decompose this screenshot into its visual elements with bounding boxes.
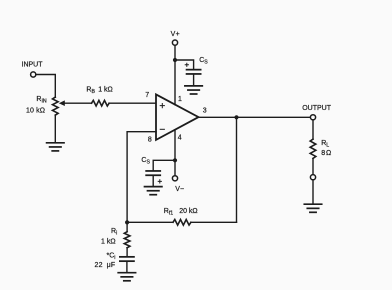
potentiometer wiper arrow — [59, 100, 65, 106]
plus sign upper CS — [185, 63, 188, 66]
wire wiper to RB — [64, 102, 92, 104]
svg-text:10 kΩ: 10 kΩ — [26, 107, 45, 114]
ground below RIN — [47, 143, 64, 151]
op-amp minus sign — [160, 128, 164, 130]
op-amp U1 triangle — [156, 94, 199, 139]
junction output feedback — [234, 115, 238, 119]
wire pot bottom to ground — [54, 115, 56, 142]
capacitor Ci 22 uF — [119, 256, 135, 262]
plus sign lower CS — [158, 180, 161, 183]
potentiometer RIN 10 kOhm — [53, 97, 59, 115]
wire feedback node to Rf1 — [127, 221, 173, 223]
wire RL to lower terminal — [312, 158, 314, 174]
node INPUT terminal — [31, 72, 36, 77]
svg-text:1: 1 — [178, 96, 182, 103]
wire Ri to Ci — [126, 248, 128, 256]
svg-text:1 kΩ: 1 kΩ — [101, 239, 116, 246]
wire pin 1 to V+ — [174, 45, 176, 104]
ground below lower CS — [145, 187, 162, 195]
svg-text:4: 4 — [178, 134, 182, 141]
node speaker return terminal — [310, 175, 315, 180]
junction V- and CS — [173, 158, 177, 162]
svg-text:8 Ω: 8 Ω — [321, 150, 331, 157]
svg-text:V+: V+ — [171, 31, 181, 38]
wire junction to Ri — [126, 222, 128, 231]
wire op-amp output pin 3 to OUTPUT — [199, 116, 311, 118]
ground below upper CS — [185, 86, 202, 94]
wire OUTPUT to RL — [312, 120, 314, 139]
svg-text:V−: V− — [175, 186, 184, 193]
junction V+ and CS — [173, 58, 177, 62]
wire INPUT to pot top — [36, 75, 55, 98]
wire pin 4 to V- — [174, 130, 176, 176]
svg-text:8: 8 — [148, 137, 152, 144]
wire Ci to ground — [126, 262, 128, 272]
resistor RL 8 Ohm — [310, 139, 316, 158]
wire RB to op-amp plus input — [109, 102, 156, 104]
capacitor CS lower — [145, 170, 161, 176]
wire feedback down from output — [236, 117, 238, 222]
resistor Ri 1 kOhm — [124, 232, 130, 248]
resistor RB 1 kOhm — [92, 100, 110, 106]
wire CS lower to ground — [152, 176, 154, 186]
svg-text:3: 3 — [203, 107, 207, 114]
op-amp plus sign — [160, 104, 164, 108]
svg-text:22 μF: 22 μF — [94, 262, 115, 269]
ground below RL — [304, 204, 321, 212]
node V+ terminal — [172, 40, 177, 45]
wire CS upper to ground — [193, 75, 195, 86]
wire terminal to ground — [312, 180, 314, 204]
svg-text:7: 7 — [145, 92, 149, 99]
node V- terminal — [172, 176, 177, 181]
svg-text:OUTPUT: OUTPUT — [302, 105, 332, 112]
svg-text:INPUT: INPUT — [22, 61, 44, 68]
wire V+ junction to CS top — [175, 60, 194, 69]
node OUTPUT terminal — [310, 115, 315, 120]
svg-text:20 kΩ: 20 kΩ — [179, 208, 197, 215]
capacitor CS upper — [186, 69, 202, 75]
svg-text:1 kΩ: 1 kΩ — [98, 87, 113, 94]
wire pin 8 minus input to feedback node — [127, 132, 156, 223]
wire Rf1 to output branch — [191, 221, 237, 223]
junction feedback Ri Rf1 — [125, 220, 129, 224]
resistor Rf1 20 kOhm — [173, 220, 191, 226]
wire V- junction to CS lower — [153, 160, 175, 170]
ground below Ci — [118, 273, 135, 281]
